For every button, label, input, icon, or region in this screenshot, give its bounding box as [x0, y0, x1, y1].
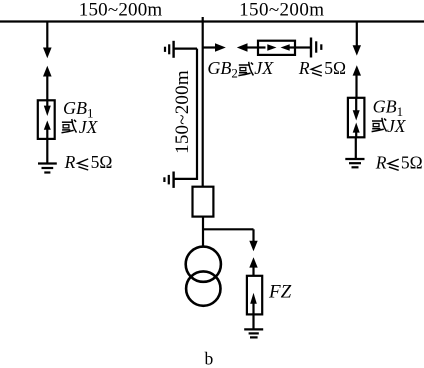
wire: box to transformer	[202, 217, 204, 247]
svg-text:JX: JX	[387, 116, 407, 136]
arrester FZ box	[247, 276, 262, 315]
arrow left inside GB2 box	[281, 44, 290, 51]
arrow down (incoming wave, left)	[43, 48, 52, 59]
svg-text:5Ω: 5Ω	[324, 58, 346, 78]
wire: right arrester lead	[355, 75, 357, 98]
ground (cable sheath, bottom)	[172, 172, 174, 188]
arrow up inside FZ box	[250, 293, 257, 304]
wire: GB2 branch from middle line	[203, 46, 216, 48]
svg-text:R: R	[64, 152, 76, 172]
transformer T primary winding	[186, 247, 221, 282]
glyph: 或 (or) left	[62, 119, 77, 133]
arrow right (incoming wave, GB2 branch)	[215, 43, 226, 52]
arrester GB1 right box	[348, 98, 365, 138]
svg-text:150~200m: 150~200m	[79, 0, 163, 21]
node tick above bus at middle junction	[202, 17, 204, 22]
ground (right arrester)	[345, 158, 364, 160]
wire: FZ drop	[252, 229, 254, 241]
ground (FZ)	[244, 328, 263, 330]
wire: left drop from bus	[46, 22, 48, 49]
svg-text:5Ω: 5Ω	[91, 152, 113, 172]
arrow down (incoming wave, right)	[353, 45, 361, 55]
ground (GB2 branch, right-facing)	[310, 38, 312, 58]
glyph: 或 (or) GB2 label	[238, 62, 253, 76]
arrow up inside right box	[353, 123, 360, 133]
wire: left arrester lead	[46, 76, 48, 100]
arrester GB1 left box	[38, 100, 55, 139]
wire: left arrester to ground	[46, 139, 48, 164]
wire: to GB2 box	[247, 46, 258, 48]
svg-text:FZ: FZ	[268, 282, 292, 303]
wire: cable sheath line	[174, 49, 197, 179]
cable terminal box	[193, 187, 214, 217]
arrow down inside right box	[355, 98, 357, 111]
svg-text:R: R	[298, 58, 310, 78]
arrow up (reflected wave, left)	[43, 66, 52, 77]
wire: FZ box to ground	[252, 314, 254, 329]
wire: right drop from bus	[356, 22, 358, 47]
wire: branch to FZ	[203, 228, 254, 230]
wire: top ground to cable	[174, 47, 197, 49]
wire: overhead line bus	[0, 20, 424, 22]
ground (cable sheath, top)	[172, 41, 174, 58]
arrow down inside left box	[46, 100, 48, 106]
transformer T secondary winding	[186, 271, 220, 305]
wire: middle drop from bus to cable box	[202, 22, 204, 187]
svg-text:JX: JX	[254, 58, 274, 78]
arrow up inside left box	[44, 121, 51, 130]
svg-text:JX: JX	[79, 117, 99, 137]
svg-text:150~200m: 150~200m	[172, 70, 193, 154]
ground (left arrester)	[38, 162, 57, 164]
wire: GB2 box to ground	[295, 46, 311, 48]
arrow left (reflected wave, GB2 branch)	[237, 43, 248, 52]
arrester GB2 box	[258, 41, 295, 55]
wire: right arrester to ground	[355, 137, 357, 159]
label: huo JX left	[0, 0, 1, 1]
arrow up (reflected wave, FZ)	[249, 257, 257, 267]
wire: to FZ box	[252, 267, 254, 276]
svg-text:GB2: GB2	[207, 58, 238, 81]
svg-text:150~200m: 150~200m	[239, 0, 324, 21]
svg-text:5Ω: 5Ω	[401, 152, 423, 172]
svg-text:b: b	[205, 349, 214, 368]
glyph: 或 (or) right	[372, 118, 387, 132]
svg-text:R: R	[375, 152, 387, 172]
arrow down (incoming wave, FZ)	[249, 241, 257, 252]
arrow right inside GB2 box	[258, 46, 266, 48]
arrow up (reflected wave, right)	[353, 65, 361, 75]
